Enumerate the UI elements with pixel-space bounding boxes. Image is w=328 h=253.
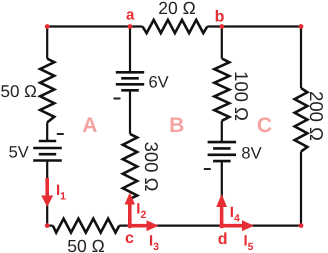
svg-text:c: c <box>125 230 134 247</box>
svg-text:d: d <box>218 231 228 248</box>
svg-text:A: A <box>82 114 97 137</box>
svg-text:300 Ω: 300 Ω <box>141 142 162 192</box>
svg-text:a: a <box>126 7 135 24</box>
svg-text:50 Ω: 50 Ω <box>67 236 104 253</box>
svg-text:5V: 5V <box>9 144 29 162</box>
svg-text:20 Ω: 20 Ω <box>158 0 195 18</box>
svg-text:C: C <box>257 114 272 137</box>
svg-text:200 Ω: 200 Ω <box>306 91 327 141</box>
svg-text:B: B <box>169 114 184 137</box>
svg-text:8V: 8V <box>241 144 261 162</box>
svg-text:50 Ω: 50 Ω <box>1 82 37 101</box>
svg-text:b: b <box>215 8 225 25</box>
svg-text:100 Ω: 100 Ω <box>231 71 252 121</box>
svg-text:6V: 6V <box>149 73 169 91</box>
